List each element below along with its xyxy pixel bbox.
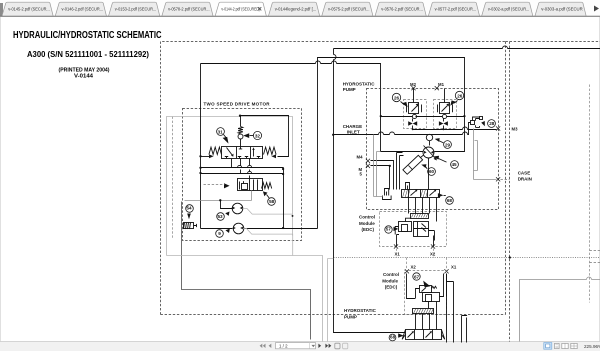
shift valve left pilot arrow [209, 154, 214, 158]
EDC 1 torque motor block [414, 222, 429, 237]
document tabs [2, 2, 586, 16]
orifice 32 (circle) [238, 134, 243, 139]
servo cylinder 60 [403, 155, 424, 175]
wire: motor 2 feed from left bus [201, 228, 233, 230]
relief valve left [407, 89, 422, 114]
charge relief valve 28 [471, 117, 483, 128]
wire: motor work lines (buses) [201, 168, 284, 174]
speed select solenoid valve 58 (2-position) [238, 179, 263, 191]
svg-text:Module: Module [382, 278, 398, 283]
wire: drive loop line A (motor left bus to pump M2 side, hops over verticals) [201, 61, 381, 117]
machine boundary (dashed outer box) [161, 42, 506, 315]
browser tab strip background [0, 0, 600, 17]
svg-text:X1: X1 [395, 251, 401, 256]
node: gallery junctions [380, 115, 466, 117]
svg-text:X2: X2 [411, 264, 417, 269]
svg-text:PUMP: PUMP [344, 314, 357, 319]
svg-text:v-0578-2.pdf (SECUR...: v-0578-2.pdf (SECUR... [168, 6, 210, 11]
svg-text:HYDROSTATIC: HYDROSTATIC [344, 308, 377, 313]
speed sensor 54 [184, 223, 197, 230]
node: gray drain junction [292, 215, 294, 217]
svg-text:26: 26 [457, 94, 463, 99]
svg-text:68: 68 [447, 198, 453, 203]
wire: case drain to rear pump (gray) [167, 256, 323, 342]
viewer toolbar with page navigation [0, 342, 600, 351]
hydrostatic pump label [343, 82, 376, 92]
callout 9 [216, 229, 230, 238]
wire: EDC2 to rear pump valve [416, 302, 437, 330]
wire: motor 1 case drain (gray) [243, 209, 293, 216]
wire: motor return to rear pump [182, 202, 311, 340]
port case drain [496, 171, 532, 182]
svg-text:32: 32 [255, 133, 261, 138]
hydrostatic pump enclosure (dashed) [367, 89, 499, 210]
callout 26 right [450, 91, 463, 105]
shift valve left spring [209, 147, 222, 154]
svg-text:57: 57 [386, 227, 392, 232]
relief valve assembly left (dashed box) [404, 100, 427, 129]
callout 58 [263, 191, 275, 205]
svg-text:Control: Control [359, 215, 375, 220]
charge inlet label [343, 124, 363, 134]
shift pilot spring (top of valve 31) [238, 116, 243, 147]
node: spring vent junction [239, 115, 241, 117]
wire: X ports to junction line (dashed) [397, 249, 434, 258]
shift valve right spring [264, 147, 277, 154]
shuttle left (bowtie) [408, 119, 417, 130]
svg-text:M4: M4 [357, 155, 364, 160]
svg-text:v-0303-a.pdf (SECUR: v-0303-a.pdf (SECUR [541, 6, 583, 11]
main piston pump 45 (variable displacement) [423, 146, 437, 161]
port X1 rear [444, 264, 456, 273]
svg-text:Control: Control [383, 272, 399, 277]
wire: rear pump right risers [447, 274, 468, 343]
junction case drain line [509, 256, 511, 258]
valve 58 spring [262, 183, 272, 189]
pump servo control valve (proportional) [402, 189, 440, 197]
svg-text:v-0576-2.pdf (SECUR...: v-0576-2.pdf (SECUR... [381, 6, 423, 11]
wire: valve left pilot feed [201, 156, 210, 158]
case drain collector line (dotted, to next section) [334, 257, 600, 259]
wire: motor 1 feed [221, 201, 233, 209]
svg-text:CHARGE: CHARGE [343, 124, 363, 129]
svg-text:v-0153-2.pdf (SECUR...: v-0153-2.pdf (SECUR... [115, 6, 157, 11]
svg-text:TWO SPEED DRIVE MOTOR: TWO SPEED DRIVE MOTOR [204, 102, 271, 107]
wire: right bus riser [283, 168, 285, 229]
wire: EDC1 to ports X1 X2 [397, 231, 435, 247]
wire: charge branch to rear pump (gray) [328, 259, 334, 342]
anti-cav check right (circle) [442, 114, 446, 118]
port M3 [496, 126, 518, 131]
svg-text:V-0144: V-0144 [74, 74, 93, 80]
wire: case drain internal (gray) [473, 129, 496, 180]
drive motor 2 [233, 223, 244, 234]
svg-text:26: 26 [394, 96, 400, 101]
port X2 rear [405, 264, 417, 273]
svg-text:31: 31 [218, 130, 224, 135]
overflow arrow [594, 6, 599, 12]
control module (EDC) label rear [382, 272, 399, 289]
port X2 front [430, 244, 436, 256]
wire: motor 2 case drain (gray) [244, 229, 293, 256]
charge pump 29 (gerotor) [426, 134, 432, 145]
relief valve assembly right (dashed box) [434, 100, 457, 129]
wire: charge inlet line (hops over loop line) [334, 123, 497, 135]
node: M5 junction [389, 165, 391, 167]
port M1 (test) [435, 82, 445, 90]
svg-text:PUMP: PUMP [343, 87, 356, 92]
svg-text:225.96%: 225.96% [584, 344, 600, 349]
port M5 [359, 164, 371, 177]
hydrostatic pump label rear [344, 308, 377, 320]
svg-text:28: 28 [489, 121, 495, 126]
svg-text:29: 29 [445, 142, 451, 147]
two speed drive motor enclosure (dashed) [183, 109, 302, 241]
svg-text:53: 53 [217, 214, 223, 219]
EDC 1 pilot valve [395, 218, 411, 234]
wire: loop lines into pump rotating group [381, 117, 465, 152]
svg-text:v-0577-2.pdf (SECUR...: v-0577-2.pdf (SECUR... [435, 6, 477, 11]
svg-text:INLET: INLET [347, 130, 360, 135]
wire: valve 58 tank line [185, 191, 252, 201]
svg-text:67: 67 [414, 274, 420, 279]
adjacent-column boundary dashed lines (right edge) [506, 42, 600, 342]
wire: shift valve right port riser [241, 116, 289, 157]
wire: rear X2 drop [407, 274, 447, 299]
port X1 front [394, 244, 400, 256]
node: bus junctions [199, 167, 284, 176]
wire: valve ports to buses [232, 159, 252, 179]
callout 60 [421, 164, 435, 175]
callout 67 [413, 273, 431, 288]
svg-text:X1: X1 [451, 264, 457, 269]
wire: M4/M5 gauge lines [371, 161, 394, 190]
drive motor 1 (two-speed) [232, 203, 243, 214]
node: motor 1 feed [219, 199, 221, 201]
wire: motor 2 output to loop [244, 228, 318, 230]
svg-text:v-0575-2.pdf (SECUR...: v-0575-2.pdf (SECUR... [328, 6, 370, 11]
svg-text:DRAIN: DRAIN [518, 177, 532, 182]
inner dashed enclosure line (motor case) [172, 117, 174, 240]
EDC 1 solenoid interface (hatched) [411, 213, 429, 219]
svg-text:(EDC): (EDC) [362, 227, 375, 232]
callout 32 [243, 131, 261, 139]
svg-text:68: 68 [390, 335, 396, 340]
wire: left bus of motor loop [200, 64, 202, 229]
motor case drain loop (gray) [167, 117, 293, 256]
callout 54 [186, 205, 194, 220]
shift valve right pilot arrow [271, 154, 276, 158]
callout 28 [481, 120, 495, 128]
svg-text:60: 60 [429, 169, 435, 174]
wire: drive loop line B (motor to pump M1 side) [318, 58, 465, 229]
callout 57 [385, 226, 399, 233]
callout 31 [217, 128, 229, 144]
svg-text:9: 9 [218, 231, 221, 236]
wire: loop gallery (relief bus) [381, 116, 465, 118]
svg-text:Module: Module [359, 221, 375, 226]
svg-text:58: 58 [269, 199, 275, 204]
control module EDC 1 enclosure [380, 212, 447, 247]
EDC 2 pilot valve [416, 286, 437, 299]
relief valve right [438, 89, 453, 114]
port M2 (test) [410, 82, 417, 90]
valve 58 solenoid arrow [204, 183, 230, 188]
svg-text:1 / 2: 1 / 2 [279, 344, 288, 349]
node: motor 2 output junctions [282, 227, 284, 229]
svg-text:45: 45 [451, 162, 457, 167]
svg-text:v-0144-2.pdf (SECURED): v-0144-2.pdf (SECURED) [221, 6, 260, 11]
svg-text:X2: X2 [430, 251, 436, 256]
node: valve left pilot [199, 155, 201, 157]
tab bar bottom divider line [0, 15, 600, 17]
port M4 [357, 155, 371, 163]
svg-text:HYDRAULIC/HYDROSTATIC SCHEMATI: HYDRAULIC/HYDROSTATIC SCHEMATIC [13, 30, 162, 41]
wire: servo feedback lines [397, 153, 404, 190]
rear pump servo control valve (proportional, partial) [402, 330, 445, 340]
callout 26 left [392, 93, 407, 107]
node: charge inlet junction [332, 134, 334, 136]
svg-text:v-0144legend-2.pdf [...: v-0144legend-2.pdf [... [275, 6, 317, 11]
svg-text:CASE: CASE [518, 171, 531, 176]
orifice block (staple symbols) [383, 158, 429, 200]
svg-text:v-0146-2.pdf (SECUR...: v-0146-2.pdf (SECUR... [62, 6, 104, 11]
two-speed shift valve 31 (3-position body) [222, 147, 263, 159]
callout 68 rear pump [389, 333, 404, 341]
control module (EDC) label front [359, 215, 375, 232]
svg-text:A300 (S/N 521111001 - 52111129: A300 (S/N 521111001 - 521111292) [27, 49, 149, 59]
wire: pump case to servo links [374, 135, 383, 197]
control module EDC 2 enclosure [405, 271, 447, 315]
callout 45 [434, 156, 459, 169]
svg-text:M3: M3 [512, 126, 519, 131]
svg-text:v-0145-2.pdf (SECUR...: v-0145-2.pdf (SECUR... [8, 6, 50, 11]
shuttle right (bowtie) [439, 119, 448, 130]
wire: charge line from reservoir (top right, with hop at boundary) [334, 46, 600, 49]
callout 53 [217, 212, 230, 221]
wire: pump valve to EDC interface [409, 198, 437, 222]
wire: charge supply vertical drop [334, 49, 406, 333]
svg-text:v-0302-a.pdf (SECUR...: v-0302-a.pdf (SECUR... [488, 6, 530, 11]
EDC 2 solenoid interface (hatched) [413, 309, 434, 314]
callout 68 front pump [438, 193, 453, 204]
EDC 2 torque motor block [423, 274, 444, 309]
anti-cav check left (circle) [412, 114, 416, 118]
svg-text:54: 54 [186, 206, 192, 211]
svg-text:(EDC): (EDC) [385, 285, 398, 290]
next section frame (solid gray, partial) [520, 277, 600, 342]
wire: rear X ports to junction line (dashed) [407, 258, 447, 270]
callout 29 [435, 138, 452, 148]
